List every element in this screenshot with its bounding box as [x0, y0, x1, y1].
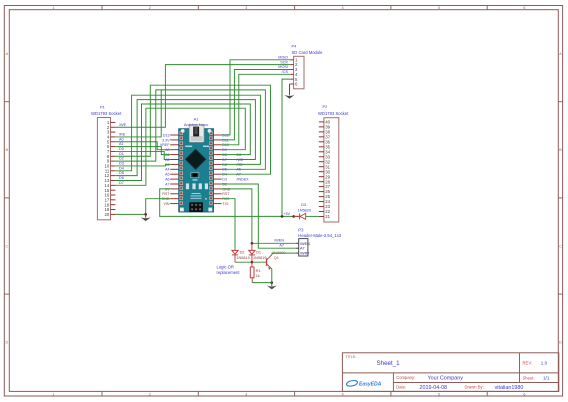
logo EasyEDA: [346, 380, 382, 388]
svg-text:A7: A7: [279, 244, 284, 248]
ground: [271, 283, 273, 286]
wire Arduino GND-row to D1 anode and /WEN: [222, 189, 252, 243]
diode D1 1N5819: [249, 250, 267, 262]
svg-text:D6: D6: [119, 176, 124, 180]
module A1 Arduino Nano: [160, 116, 231, 212]
connector P3 Header-Male-2.54_1x3: [296, 227, 342, 256]
svg-text:RST: RST: [222, 192, 230, 196]
wire P1.4 /RE riser joining bus: [115, 90, 161, 137]
junction +5V / D3: [292, 215, 295, 218]
svg-text:P1: P1: [100, 105, 106, 110]
svg-text:21: 21: [325, 214, 330, 219]
svg-text:A1: A1: [194, 116, 200, 121]
wire Arduino D12 to SD MISO: [222, 60, 291, 135]
svg-text:+5V: +5V: [284, 212, 291, 216]
svg-text:2: 2: [149, 392, 151, 396]
wire D3 to P2 pin21: [306, 215, 319, 217]
svg-text:Logic OR: Logic OR: [217, 264, 234, 269]
wire +5V rail from Arduino 5V: [160, 189, 300, 217]
svg-text:/WRT: /WRT: [300, 252, 310, 256]
svg-text:3: 3: [245, 6, 247, 10]
wire Q1 collector to /WRT P3 pin3: [271, 253, 296, 256]
diode D3 1N5820: [294, 203, 311, 219]
svg-text:Sheet_1: Sheet_1: [377, 360, 401, 367]
junction diode cathodes / R1: [251, 261, 254, 264]
svg-text:1: 1: [52, 392, 54, 396]
svg-text:TITLE:: TITLE:: [346, 355, 357, 359]
svg-text:1: 1: [52, 6, 54, 10]
wire diode cathode rail to Q1 base: [235, 261, 267, 263]
svg-text:MISO: MISO: [278, 56, 288, 60]
svg-text:5: 5: [438, 6, 440, 10]
svg-text:D1: D1: [119, 152, 124, 156]
svg-text:P4: P4: [292, 44, 298, 49]
svg-text:D3: D3: [222, 178, 227, 182]
svg-text:D: D: [559, 341, 562, 345]
svg-text:D4: D4: [119, 166, 124, 170]
svg-text:/INDEX: /INDEX: [237, 178, 250, 182]
wire P1.6 A1 to Arduino A1: [115, 147, 170, 155]
svg-text:MOSI: MOSI: [278, 65, 288, 69]
svg-text:3.3V: 3.3V: [162, 138, 170, 142]
transistor Q1 2N3900: [267, 251, 286, 270]
svg-text:Date:: Date:: [396, 385, 406, 390]
svg-text:vitalian1980: vitalian1980: [495, 385, 524, 391]
wire GND net: P1.20 to ground junction: [115, 213, 145, 215]
svg-text:C: C: [559, 244, 562, 248]
svg-text:Sheet:: Sheet:: [523, 376, 535, 381]
ground: [145, 214, 147, 217]
junction /WEN-D1: [251, 242, 254, 245]
svg-text:Drawn By:: Drawn By:: [465, 385, 484, 390]
svg-text:A7: A7: [165, 182, 169, 186]
svg-text:P2: P2: [323, 104, 329, 109]
svg-text:D1: D1: [256, 250, 261, 254]
svg-text:5: 5: [438, 392, 440, 396]
svg-text:Q1: Q1: [274, 256, 279, 260]
svg-text:1N5819: 1N5819: [253, 256, 266, 260]
wire P1.14 D7 to Arduino D9: [115, 108, 245, 185]
svg-text:replacement: replacement: [217, 270, 241, 275]
wire P1.7 D0 to Arduino A2: [115, 151, 170, 159]
svg-text:6: 6: [523, 6, 525, 10]
wire P1.11 D4 to Arduino D6: [115, 95, 260, 171]
svg-text:SCK: SCK: [280, 60, 288, 64]
svg-text:EasyEDA: EasyEDA: [359, 381, 382, 387]
svg-text:WD1793 Socket: WD1793 Socket: [318, 111, 349, 116]
svg-text:D5: D5: [119, 171, 124, 175]
svg-text:D3: D3: [119, 162, 124, 166]
wire Arduino D11 to SD MOSI: [222, 70, 291, 140]
connector P1 WD1793 Socket: [91, 105, 122, 220]
svg-text:Company:: Company:: [396, 375, 415, 380]
junction emitter-ground: [271, 281, 274, 284]
svg-text:TX1: TX1: [222, 202, 229, 206]
svg-text:D: D: [5, 341, 8, 345]
svg-text:D2: D2: [240, 250, 245, 254]
svg-text:A6: A6: [165, 178, 169, 182]
svg-text:RST: RST: [162, 192, 170, 196]
wire P1.13 D6 to Arduino D8: [115, 104, 250, 180]
svg-text:1/1: 1/1: [543, 376, 550, 381]
svg-text:A4: A4: [165, 168, 169, 172]
svg-text:WD1793 Socket: WD1793 Socket: [91, 111, 122, 116]
svg-text:Arduino Nano: Arduino Nano: [184, 122, 209, 127]
wire SD VCC down to +5V rail: [282, 79, 290, 216]
svg-text:A0: A0: [119, 137, 124, 141]
svg-text:1k: 1k: [256, 274, 260, 278]
wire Q1 emitter to ground junction: [270, 268, 272, 283]
svg-text:/WEN: /WEN: [300, 242, 310, 246]
wire P1.10 D3 to Arduino A3: [115, 164, 170, 166]
connector P2 WD1793 Socket: [318, 104, 349, 222]
wire Arduino RX0 to D2 anode: [222, 199, 235, 249]
svg-text:6: 6: [523, 392, 525, 396]
svg-text:D7: D7: [119, 181, 124, 185]
svg-text:D3: D3: [301, 203, 306, 207]
wire P1.2 /WE to SD SCK: [115, 65, 290, 128]
svg-text:1.0: 1.0: [541, 361, 548, 366]
svg-text:D2: D2: [119, 157, 124, 161]
svg-text:R1: R1: [256, 269, 261, 273]
wire Arduino D10 to SD /CS: [222, 74, 291, 145]
svg-text:A7: A7: [300, 247, 305, 251]
svg-text:/CS: /CS: [282, 70, 289, 74]
diode D2 1N5819: [232, 249, 250, 262]
svg-text:REV:: REV:: [523, 361, 533, 366]
svg-text:4: 4: [342, 6, 344, 10]
connector P4 SD Card Module: [290, 44, 323, 89]
junction +5V / SD VCC: [281, 215, 284, 218]
svg-text:/WE: /WE: [119, 123, 127, 127]
svg-text:C: C: [5, 244, 8, 248]
wire /WEN to P3 pin1: [252, 242, 296, 244]
svg-text:A1: A1: [119, 142, 124, 146]
svg-text:3: 3: [245, 392, 247, 396]
wire P1.12 D5 to Arduino D7: [115, 100, 255, 176]
wire P4 pin6 to ground: [289, 83, 292, 85]
wire P1.8 D1 to Arduino D4: [115, 85, 270, 174]
svg-text:VIN: VIN: [164, 202, 170, 206]
wire R1 to ground rail: [251, 278, 253, 283]
svg-text:20: 20: [105, 212, 110, 217]
svg-text:Header-Male-2.54_1x3: Header-Male-2.54_1x3: [298, 233, 342, 238]
wire cathode node to R1: [251, 262, 253, 267]
svg-text:D13: D13: [163, 133, 170, 137]
junction GND: [144, 213, 147, 216]
svg-text:A5: A5: [165, 173, 169, 177]
svg-text:2: 2: [149, 6, 151, 10]
svg-text:1N5820: 1N5820: [298, 208, 311, 212]
resistor R1 1k: [250, 267, 260, 278]
wire Arduino D2 to A7 / P3 pin2: [222, 184, 296, 248]
wire P1.9 D2 to Arduino D5: [115, 90, 265, 169]
svg-text:1N5819: 1N5819: [236, 256, 249, 260]
svg-text:D0: D0: [119, 147, 124, 151]
svg-text:SD Card Module: SD Card Module: [292, 50, 324, 55]
ground: [289, 92, 291, 95]
wire P1.5 A0 to Arduino A0: [115, 142, 170, 150]
svg-text:P3: P3: [298, 227, 304, 232]
svg-text:2019-04-08: 2019-04-08: [420, 385, 448, 391]
svg-text:4: 4: [342, 392, 344, 396]
svg-text:/WEN: /WEN: [274, 239, 284, 243]
title block: [342, 353, 558, 392]
svg-text:/RE: /RE: [119, 133, 126, 137]
wire Arduino GND to ground junction: [146, 199, 171, 215]
svg-text:Your Company: Your Company: [428, 375, 464, 381]
